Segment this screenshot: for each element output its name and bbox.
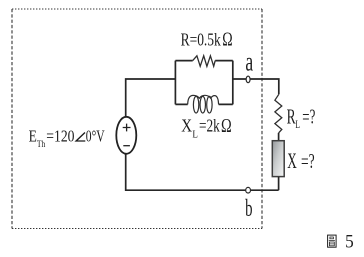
inductor X_L (coil on bottom edge): [188, 95, 219, 113]
svg-text:Ω: Ω: [221, 116, 232, 137]
svg-text:X: X: [287, 148, 297, 173]
figure caption character 圖 (drawn): [328, 235, 337, 247]
parallel box bottom edge wires: [175, 103, 232, 105]
svg-text:b: b: [245, 196, 252, 222]
angle symbol of E_Th label: [76, 133, 85, 142]
label E_Th=120∠0°V: [29, 126, 105, 150]
svg-text:R=0.5k: R=0.5k: [181, 30, 221, 50]
svg-text:=2k: =2k: [199, 116, 220, 136]
wire: from reactance box down to bottom wire: [278, 177, 280, 190]
parallel box right edge wire: [232, 61, 234, 105]
label X=?: [287, 148, 314, 173]
node a terminal circle: [246, 76, 250, 83]
svg-text:0°V: 0°V: [86, 126, 105, 145]
svg-text:R: R: [287, 105, 296, 129]
svg-text:a: a: [245, 47, 253, 77]
resistor R (zigzag on top edge): [193, 56, 216, 67]
parallel box top edge wires: [175, 60, 232, 62]
svg-text:=120: =120: [46, 126, 74, 145]
label X_L=2kΩ: [181, 116, 231, 141]
label R_L=?: [287, 105, 316, 131]
Thevenin equivalent dashed boundary box: [12, 9, 262, 229]
wire: from parallel box right edge through node a to right branch corner: [233, 79, 279, 94]
label R=0.5kΩ: [181, 29, 233, 50]
node b terminal circle: [246, 187, 251, 193]
wire: bottom from source down and right to node b and right branch: [126, 154, 279, 191]
parallel box left edge wire: [174, 61, 176, 105]
svg-text:L: L: [295, 119, 300, 131]
wire: between R_L and reactance box: [278, 133, 280, 141]
voltage source E_Th (ellipse with + and -): [116, 117, 136, 154]
wire: top-left from source up and right to parallel box: [126, 79, 176, 117]
svg-text:X: X: [181, 116, 192, 136]
svg-text:5: 5: [345, 231, 354, 252]
svg-text:=?: =?: [302, 105, 315, 129]
svg-text:L: L: [192, 129, 198, 140]
svg-text:Ω: Ω: [222, 29, 232, 50]
resistor R_L (vertical zigzag): [275, 94, 282, 133]
svg-text:Th: Th: [37, 140, 46, 150]
svg-text:E: E: [29, 126, 37, 145]
svg-text:=?: =?: [301, 149, 315, 173]
